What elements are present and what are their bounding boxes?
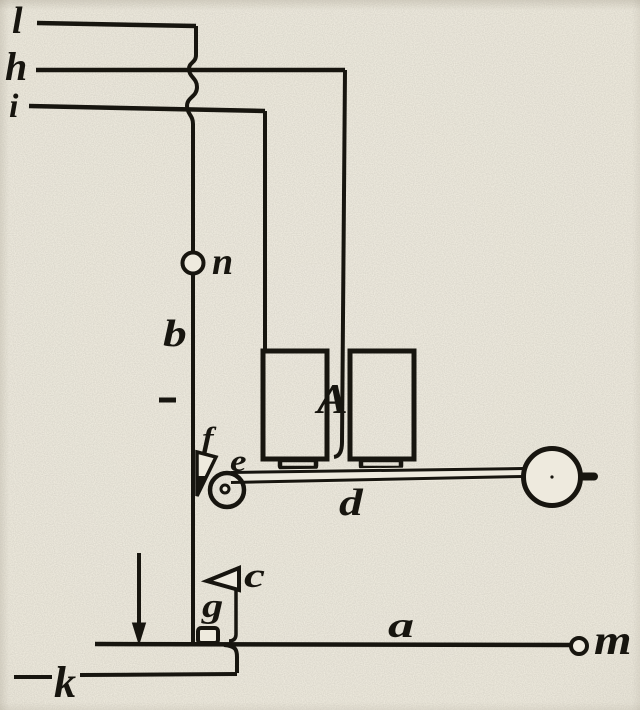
wire h vertical drop into magnet gap	[334, 70, 345, 457]
svg-text:d: d	[339, 482, 364, 524]
svg-text:g: g	[201, 588, 223, 625]
svg-text:b: b	[163, 313, 187, 355]
electromagnet A right pole foot	[361, 460, 401, 468]
pivot e hub dot	[221, 485, 229, 493]
svg-text:i: i	[9, 88, 19, 125]
svg-text:n: n	[212, 241, 233, 283]
flag c rod	[229, 570, 236, 641]
wire k left segment	[14, 675, 52, 679]
svg-text:e: e	[230, 444, 247, 478]
wire b vertical with hops over h and i	[187, 26, 197, 252]
minus mark on wire b	[159, 398, 176, 403]
connector from a down to k	[224, 645, 237, 673]
wire l (lead-in, top)	[37, 23, 196, 26]
svg-text:A: A	[314, 376, 348, 423]
weight ball on lever d	[524, 449, 581, 506]
contact block g	[198, 628, 218, 643]
svg-text:k: k	[54, 658, 76, 707]
lever arm d (tapered rod)	[231, 466, 523, 485]
wire b lower vertical	[191, 274, 195, 643]
pawl f tip (filled)	[197, 476, 206, 494]
arrow (downward force)	[137, 553, 141, 626]
svg-text:l: l	[12, 0, 23, 42]
baseline wire a	[95, 644, 570, 645]
svg-text:m: m	[594, 617, 632, 663]
ball right stub	[582, 473, 594, 481]
pivot e (bearing circle)	[210, 473, 244, 507]
terminal m (small circle)	[571, 638, 587, 654]
electromagnet A left pole foot	[280, 460, 316, 468]
arrow head	[133, 623, 146, 644]
svg-text:h: h	[5, 44, 27, 89]
pawl f (wedge on wire b)	[197, 452, 216, 496]
electromagnet A left coil	[263, 351, 327, 459]
wire i vertical drop to magnet	[263, 111, 267, 352]
svg-text:c: c	[244, 556, 265, 595]
lever arm d bottom edge	[231, 477, 523, 483]
node n (circle)	[183, 253, 204, 274]
svg-text:a: a	[388, 605, 414, 645]
wire k right segment	[80, 674, 237, 675]
ball center dot	[550, 475, 553, 478]
flag c (pennant)	[207, 568, 239, 590]
wire h (horizontal)	[36, 68, 345, 73]
electromagnet A right coil	[350, 351, 414, 459]
wire i (horizontal)	[29, 106, 265, 111]
lever arm d top edge	[231, 469, 523, 473]
